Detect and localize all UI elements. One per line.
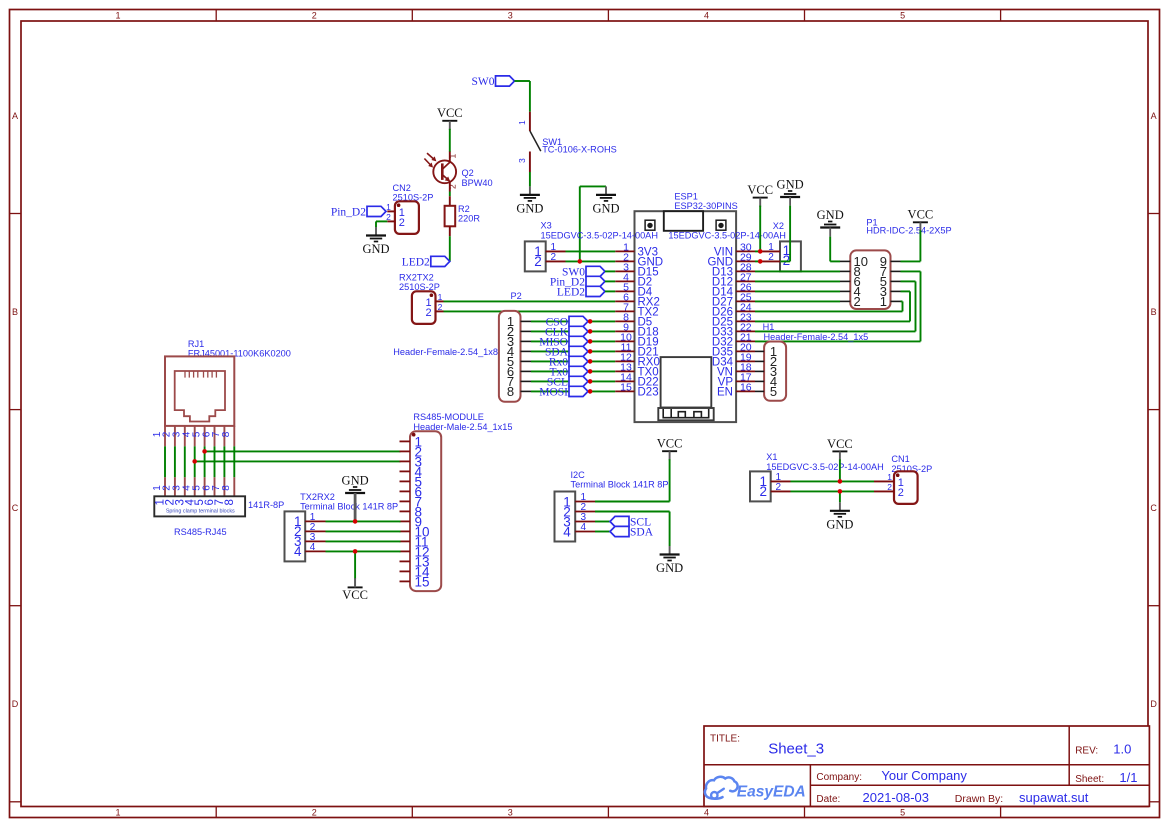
pin number 1 of RX2TX2	[438, 292, 443, 302]
svg-text:2: 2	[312, 808, 317, 818]
pin number 19 of ESP1	[740, 352, 752, 364]
terminal 2 of X2	[783, 253, 791, 268]
power VCC (I2C)	[657, 437, 683, 461]
title block	[704, 726, 1149, 806]
pin 4 of RS485-MODULE	[400, 470, 411, 472]
terminal block X1 body	[750, 471, 791, 501]
wire SCL	[531, 380, 615, 382]
junction	[588, 369, 593, 374]
pin 6 of P1	[840, 280, 850, 282]
wire	[902, 301, 904, 311]
pin 12 of RS485-MODULE	[400, 550, 411, 552]
pin number 1 of X3	[551, 242, 557, 253]
terminal 4 of I2C	[563, 524, 571, 539]
svg-text:2: 2	[425, 307, 431, 319]
terminal 4 of RS485-MODULE	[415, 464, 423, 479]
pin name VP	[718, 377, 734, 389]
label 15EDGVC-3.5-02P-14-00AH (X1)	[766, 462, 883, 472]
power VCC (ESP VIN)	[747, 183, 773, 207]
label SW1	[542, 137, 562, 147]
pin 28 of ESP1	[736, 270, 755, 272]
terminal 1 of terminal strip	[155, 499, 167, 505]
junction	[588, 319, 593, 324]
pin 9 of ESP1	[615, 330, 634, 332]
junction	[202, 449, 207, 454]
pin 2 of P1	[840, 300, 850, 302]
junction	[192, 459, 197, 464]
svg-text:HDR-IDC-2.54-2X5P: HDR-IDC-2.54-2X5P	[866, 226, 951, 236]
pin number 7 of RJ1	[211, 431, 222, 437]
ground (TX2RX2)	[342, 473, 369, 493]
terminal 1 of P1	[880, 294, 887, 309]
terminal 5 of RS485-MODULE	[415, 474, 423, 489]
pin 4 of H1	[755, 380, 764, 382]
net label Pin_D2 (D2)	[550, 276, 605, 288]
svg-text:1: 1	[517, 120, 527, 125]
wire	[920, 271, 922, 341]
pin name VN	[717, 367, 733, 379]
svg-text:D23: D23	[638, 387, 659, 399]
pin number 2 of RJ1 (bottom)	[162, 485, 173, 491]
label 2510S-2P (CN2)	[393, 193, 434, 203]
svg-text:Company:: Company:	[816, 772, 862, 783]
terminal 1 of CN1	[898, 477, 904, 489]
pin name D4	[638, 287, 653, 299]
pin 4 of I2C	[575, 531, 595, 533]
svg-text:RJ1: RJ1	[188, 339, 204, 349]
pin 8 of ESP1	[615, 320, 634, 322]
pin number 28 of ESP1	[740, 262, 752, 274]
wire	[449, 129, 451, 152]
svg-text:TX2RX2: TX2RX2	[300, 492, 335, 502]
wire X1-CN1 pin2	[791, 490, 875, 492]
wire D12 to P1	[755, 280, 840, 282]
svg-text:2: 2	[438, 302, 443, 312]
pin 1 of H1	[755, 350, 764, 352]
wire	[919, 230, 921, 261]
terminal 4 of H1	[770, 374, 777, 389]
wire	[830, 260, 840, 262]
pin 2 of P2	[521, 330, 532, 332]
terminal 8 of P1	[854, 264, 861, 279]
svg-text:CN2: CN2	[393, 183, 411, 193]
pin name D23	[638, 387, 659, 399]
pin number 22 of ESP1	[740, 322, 752, 334]
svg-text:X3: X3	[541, 221, 552, 231]
junction	[838, 479, 843, 484]
pin name RX0	[638, 357, 660, 369]
terminal 3 of terminal strip	[174, 499, 186, 505]
label ESP32-30PINS	[674, 201, 737, 211]
pin 4 of TX2RX2	[305, 550, 325, 552]
wire	[326, 540, 401, 542]
svg-text:1: 1	[448, 153, 458, 158]
wire	[901, 290, 911, 292]
pin 4 of P1	[840, 290, 850, 292]
terminal 1 of X3	[534, 244, 542, 259]
junction	[588, 379, 593, 384]
pin 5 of RJ1	[204, 426, 206, 496]
pin 6 of P2	[521, 370, 532, 372]
svg-text:B: B	[12, 307, 18, 317]
terminal 3 of P2	[507, 334, 514, 349]
pin 3 of H1	[755, 370, 764, 372]
power VCC (Q2)	[437, 106, 463, 130]
pin 1 of RJ1	[164, 426, 166, 496]
net label LED2	[402, 256, 450, 268]
drawn-by label	[955, 793, 1003, 805]
net label Pin_D2	[331, 206, 386, 218]
svg-text:VCC: VCC	[908, 208, 934, 222]
pin 2 of I2C	[575, 511, 595, 513]
svg-text:A: A	[1151, 111, 1157, 121]
pin number 6 of RJ1 (bottom)	[201, 485, 212, 491]
pin number 4 of ESP1	[623, 272, 629, 284]
pin number 1 of ESP1	[623, 242, 629, 254]
wire GND	[566, 260, 616, 262]
terminal 1 of RX2TX2	[425, 297, 431, 309]
svg-text:2021-08-03: 2021-08-03	[863, 790, 930, 805]
svg-text:TC-0106-X-ROHS: TC-0106-X-ROHS	[542, 145, 617, 155]
pin 9 of P1	[891, 260, 901, 262]
svg-text:1: 1	[115, 808, 120, 818]
svg-text:5: 5	[900, 808, 905, 818]
svg-text:GND: GND	[516, 201, 543, 215]
net label MOSI	[539, 386, 588, 398]
label BPW40	[462, 178, 493, 188]
wire	[449, 236, 451, 261]
wire	[755, 260, 760, 262]
svg-text:1: 1	[887, 472, 892, 482]
pin 7 of P2	[521, 380, 532, 382]
svg-text:GND: GND	[826, 517, 853, 531]
pin number 3 of RJ1	[172, 431, 183, 437]
label RX2TX2	[399, 272, 434, 282]
pin number 14 of ESP1	[620, 372, 632, 384]
wire 3V3	[566, 250, 616, 252]
svg-text:I2C: I2C	[571, 470, 586, 480]
date label	[816, 794, 840, 805]
pin 2 of RJ1	[174, 426, 176, 496]
pin number 2 of RX2TX2	[438, 302, 443, 312]
wire	[901, 280, 916, 282]
pin 3 of I2C	[575, 521, 595, 523]
svg-text:VCC: VCC	[342, 588, 368, 602]
label CN1	[891, 454, 909, 464]
svg-text:1: 1	[880, 294, 887, 309]
pin number 3 of ESP1	[623, 262, 629, 274]
net label SDA	[545, 346, 588, 358]
wire	[595, 521, 610, 523]
pin number 2 of RJ1	[162, 431, 173, 437]
label X1	[766, 452, 777, 462]
svg-text:2: 2	[854, 294, 861, 309]
pin 5 of RS485-MODULE	[400, 480, 411, 482]
terminal 5 of P1	[880, 274, 887, 289]
terminal 1 of X2	[783, 243, 791, 258]
svg-text:RS485-MODULE: RS485-MODULE	[413, 412, 483, 422]
connector RJ1 RJ45 body	[165, 356, 234, 426]
label FRJ45001-1100K6K0200	[188, 349, 291, 359]
svg-text:VCC: VCC	[827, 437, 853, 451]
svg-text:141R-8P: 141R-8P	[248, 500, 284, 510]
svg-text:Terminal Block 141R 8P: Terminal Block 141R 8P	[300, 501, 398, 511]
terminal 5 of terminal strip	[194, 499, 206, 505]
pin 27 of ESP1	[736, 280, 755, 282]
wire	[755, 320, 910, 322]
ground (X1)	[826, 502, 853, 531]
svg-text:GND: GND	[362, 242, 389, 256]
terminal 5 of P2	[507, 354, 514, 369]
pin 1 of P1	[891, 300, 901, 302]
junction	[838, 489, 843, 494]
terminal 8 of terminal strip	[224, 499, 236, 505]
pin 10 of P1	[840, 260, 850, 262]
wire	[326, 530, 401, 532]
power VCC (X1)	[827, 437, 853, 461]
terminal 8 of P2	[507, 384, 514, 399]
svg-text:2: 2	[759, 484, 767, 499]
svg-text:GND: GND	[777, 177, 804, 191]
svg-text:8: 8	[507, 384, 514, 399]
terminal 3 of TX2RX2	[294, 534, 302, 549]
wire I2C-1 to VCC	[595, 501, 670, 503]
pin 12 of ESP1	[615, 360, 634, 362]
svg-text:1: 1	[115, 11, 120, 21]
pin name D34	[712, 357, 734, 369]
net label SDA	[610, 526, 654, 538]
pin 19 of ESP1	[736, 360, 755, 362]
pin number 10 of ESP1	[620, 332, 632, 344]
pin 7 of P1	[891, 270, 901, 272]
pin number 27 of ESP1	[740, 272, 752, 284]
pin number 2 of ESP1	[623, 252, 629, 264]
terminal 14 of RS485-MODULE	[415, 564, 431, 579]
svg-text:Q2: Q2	[462, 168, 474, 178]
svg-text:MOSI: MOSI	[539, 386, 568, 398]
svg-text:LED2: LED2	[402, 256, 430, 268]
title Sheet_3	[768, 740, 824, 757]
wire	[901, 300, 903, 302]
pin number 3 of I2C	[581, 512, 587, 523]
pin number 23 of ESP1	[740, 312, 752, 324]
pin 22 of ESP1	[736, 330, 755, 332]
net label SCL	[610, 516, 651, 528]
terminal 9 of P1	[880, 254, 887, 269]
pin name RX2	[638, 297, 660, 309]
wire CLK	[531, 330, 615, 332]
svg-text:4: 4	[581, 522, 587, 533]
svg-text:GND: GND	[592, 201, 619, 215]
svg-text:3: 3	[517, 158, 527, 163]
ground (X3 net)	[592, 186, 619, 215]
wire	[755, 310, 903, 312]
sheet label	[1075, 774, 1104, 785]
pin number 1 of X1	[776, 472, 782, 483]
pin 3 of P1	[891, 290, 901, 292]
wire X1-CN1 pin1	[791, 480, 875, 482]
transistor Q2 BPW40 phototransistor	[424, 152, 456, 206]
label Terminal Block 141R 8P (I2C)	[571, 479, 669, 489]
pin 6 of ESP1	[615, 300, 634, 302]
label RS485-RJ45	[174, 527, 227, 537]
pin number 2 of CN2	[386, 212, 391, 222]
net label SW0 (D15)	[562, 266, 605, 278]
wire RX2	[444, 300, 616, 302]
svg-text:15EDGVC-3.5-02P-14-00AH: 15EDGVC-3.5-02P-14-00AH	[668, 231, 785, 241]
svg-text:2: 2	[887, 482, 892, 492]
svg-text:GND: GND	[817, 208, 844, 222]
pin 9 of RS485-MODULE	[400, 520, 411, 522]
terminal 2 of H1	[770, 354, 777, 369]
svg-text:1.0: 1.0	[1113, 742, 1131, 757]
IC ESP1 ESP32-30PINS body	[635, 211, 737, 422]
wire	[915, 281, 917, 331]
label 220R	[458, 214, 480, 224]
pin number 8 of RJ1	[221, 431, 232, 437]
pin 10 of RS485-MODULE	[400, 530, 411, 532]
wire	[595, 531, 610, 533]
label 15EDGVC-3.5-02P-14-00AH (X2)	[668, 231, 785, 241]
svg-text:220R: 220R	[458, 214, 480, 224]
terminal 7 of P2	[507, 374, 514, 389]
terminal 4 of TX2RX2	[294, 544, 302, 559]
junction	[353, 519, 358, 524]
wire Tx0	[531, 370, 615, 372]
terminal 7 of RS485-MODULE	[415, 494, 423, 509]
pin name D12	[712, 277, 733, 289]
svg-text:C: C	[1150, 503, 1157, 513]
junction	[588, 389, 593, 394]
pin 11 of ESP1	[615, 350, 634, 352]
svg-text:Your Company: Your Company	[881, 768, 967, 783]
wire	[839, 491, 841, 502]
pin number 2 of X3	[551, 252, 557, 263]
wire	[375, 221, 377, 227]
svg-text:Drawn By:: Drawn By:	[955, 793, 1003, 805]
title label	[710, 733, 740, 744]
svg-text:GND: GND	[342, 473, 369, 487]
svg-text:8: 8	[221, 485, 232, 491]
label X2	[773, 221, 784, 231]
terminal 2 of P2	[507, 324, 514, 339]
terminal 1 of TX2RX2	[294, 514, 302, 529]
svg-text:X1: X1	[766, 452, 777, 462]
wire	[669, 459, 671, 501]
wire	[605, 280, 615, 282]
pin 16 of ESP1	[736, 390, 755, 392]
svg-text:15: 15	[415, 574, 430, 589]
wire TX2	[444, 310, 616, 312]
pin number 5 of ESP1	[623, 282, 629, 294]
switch SW1 TC-0106-X-ROHS	[530, 112, 541, 172]
pin number 1 of CN1	[887, 472, 892, 482]
junction	[588, 349, 593, 354]
pin name D35	[712, 347, 733, 359]
pin number 17 of ESP1	[740, 372, 752, 384]
svg-text:15: 15	[620, 382, 632, 394]
pin 25 of ESP1	[736, 300, 755, 302]
pin number 2 of TX2RX2	[310, 522, 316, 533]
svg-text:5: 5	[770, 384, 777, 399]
label I2C	[571, 470, 586, 480]
terminal 6 of RS485-MODULE	[415, 484, 423, 499]
svg-text:15EDGVC-3.5-02P-14-00AH: 15EDGVC-3.5-02P-14-00AH	[766, 462, 883, 472]
svg-text:15EDGVC-3.5-02P-14-00AH: 15EDGVC-3.5-02P-14-00AH	[541, 231, 658, 241]
svg-text:TITLE:: TITLE:	[710, 733, 740, 744]
pin 17 of ESP1	[736, 380, 755, 382]
svg-text:EN: EN	[717, 387, 733, 399]
wire	[839, 459, 841, 481]
pin name D18	[638, 327, 659, 339]
terminal 2 of CN2	[399, 217, 405, 229]
terminal 2 of CN1	[898, 487, 904, 499]
svg-text:supawat.sut: supawat.sut	[1019, 790, 1089, 805]
connector CN2 2510S-2P body	[387, 201, 419, 234]
svg-text:2: 2	[534, 254, 542, 269]
wire	[529, 81, 531, 112]
wire	[755, 340, 921, 342]
svg-text:Terminal Block 141R 8P: Terminal Block 141R 8P	[571, 479, 669, 489]
net label CLK	[545, 326, 588, 338]
header P2 body	[499, 311, 521, 402]
terminal 6 of terminal strip	[204, 499, 216, 505]
pin 2 of H1	[755, 360, 764, 362]
svg-text:2: 2	[776, 482, 782, 493]
drawn-by value	[1019, 790, 1089, 805]
rev 1.0	[1113, 742, 1131, 757]
terminal 1 of X1	[759, 474, 767, 489]
pin number 1 of Q2	[448, 153, 458, 158]
pin name GND	[707, 257, 733, 269]
svg-text:2: 2	[448, 184, 458, 189]
terminal 3 of H1	[770, 364, 777, 379]
connector CN1 2510S-2P body	[874, 471, 918, 504]
pin 10 of ESP1	[615, 340, 634, 342]
svg-text:2: 2	[783, 253, 791, 268]
terminal 1 of RS485-MODULE	[415, 434, 423, 449]
label Q2	[462, 168, 474, 178]
pin 7 of RS485-MODULE	[400, 500, 411, 502]
pin number 11 of ESP1	[621, 342, 632, 354]
svg-text:ESP32-30PINS: ESP32-30PINS	[674, 201, 737, 211]
pin number 8 of ESP1	[623, 312, 629, 324]
pin name EN	[717, 387, 733, 399]
company label	[816, 772, 862, 783]
pin name D15	[638, 267, 659, 279]
terminal block TX2RX2 body	[285, 511, 306, 561]
svg-text:ESP1: ESP1	[674, 192, 698, 202]
pin 4 of RJ1	[194, 426, 196, 496]
svg-text:Sheet_3: Sheet_3	[768, 740, 824, 757]
svg-text:VCC: VCC	[747, 183, 773, 197]
terminal 2 of X3	[534, 254, 542, 269]
wire MISO	[531, 340, 615, 342]
wire I2C-2 to GND	[595, 511, 670, 513]
pin name D25	[712, 317, 733, 329]
label Terminal Block 141R 8P (TX2RX2)	[300, 501, 398, 511]
wire	[759, 206, 761, 252]
pin name D21	[638, 347, 659, 359]
net label LED2 (D4)	[557, 286, 605, 298]
wire RJ45-4 to module	[195, 460, 401, 462]
svg-text:1: 1	[386, 202, 391, 212]
pin 20 of ESP1	[736, 350, 755, 352]
label Header-Female-2.54_1x8	[393, 347, 498, 357]
label 15EDGVC-3.5-02P-14-00AH (X3)	[541, 231, 658, 241]
wire RJ45-5 to module	[205, 450, 401, 452]
terminal 6 of P2	[507, 364, 514, 379]
